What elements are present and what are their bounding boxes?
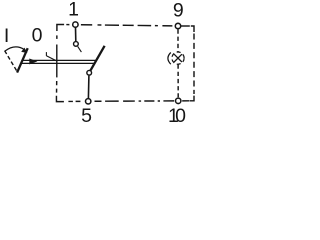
svg-text:5: 5 (81, 105, 92, 127)
svg-text:9: 9 (173, 0, 184, 21)
svg-text:1: 1 (68, 0, 79, 21)
svg-text:I: I (4, 25, 9, 47)
svg-text:0: 0 (175, 105, 186, 127)
svg-text:0: 0 (32, 25, 43, 47)
